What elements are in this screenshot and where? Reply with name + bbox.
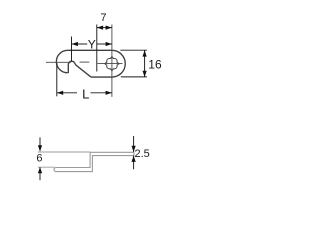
svg-text:L: L xyxy=(82,86,89,101)
svg-text:6: 6 xyxy=(36,153,42,165)
svg-text:16: 16 xyxy=(148,58,162,72)
svg-text:7: 7 xyxy=(100,12,106,24)
svg-text:Y: Y xyxy=(88,37,96,51)
svg-text:2.5: 2.5 xyxy=(135,148,150,160)
